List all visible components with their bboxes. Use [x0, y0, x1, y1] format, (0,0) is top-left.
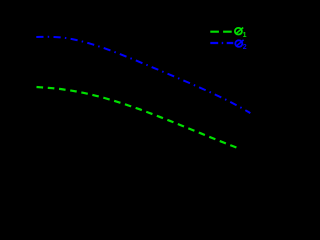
legend sample line theta2 (blue dash-dot): [210, 42, 233, 44]
legend sample line theta1 (green dashed): [210, 31, 232, 33]
legend label theta2 glyph: [235, 40, 243, 47]
legend label theta1 glyph: [235, 28, 243, 35]
curve theta2 (blue dash-dot): [36, 37, 250, 113]
svg-text:1: 1: [243, 32, 247, 39]
svg-text:2: 2: [243, 44, 247, 51]
curve theta1 (green dashed): [37, 87, 241, 149]
